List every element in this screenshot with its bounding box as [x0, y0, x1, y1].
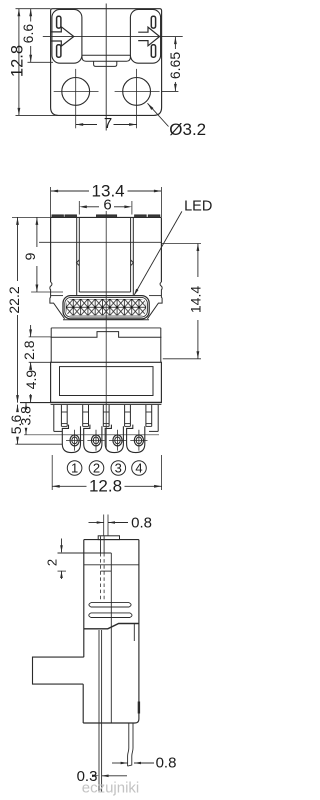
top view: vertical centerline — [105, 4, 107, 131]
dimension 0.3 bottom left leg — [92, 775, 99, 778]
svg-text:2: 2 — [45, 559, 60, 566]
side view: hidden pin dashed pair — [100, 553, 102, 600]
svg-text:22.2: 22.2 — [6, 286, 22, 313]
svg-text:2.8: 2.8 — [21, 340, 37, 360]
front view: right side squiggle break — [147, 282, 162, 319]
top view: right keystone tower — [130, 9, 160, 63]
side view: inner vertical after step — [133, 624, 135, 642]
svg-text:14.4: 14.4 — [188, 286, 204, 313]
front view: comb ladder strips — [60, 405, 62, 427]
dimension 6 slot width — [84, 206, 99, 208]
front view: left side squiggle break — [50, 282, 65, 319]
dimension 3.8 left — [25, 403, 27, 406]
front view: lower shoulder line — [51, 327, 161, 329]
top view: right mounting hole circle — [123, 78, 151, 106]
svg-text:12.8: 12.8 — [9, 45, 27, 77]
top view: left mounting hole circle — [62, 78, 90, 106]
svg-text:4.9: 4.9 — [23, 370, 39, 390]
dimension 14.4 right side — [197, 244, 199, 278]
dimension 9 slot depth — [36, 217, 38, 247]
dimension 13.4 top of front view — [51, 190, 89, 192]
dimension 5.6 left — [17, 405, 19, 410]
svg-text:3: 3 — [115, 461, 122, 476]
dimension 12.8 vertical left of top view — [16, 8, 51, 10]
dimension 6.65 vertical right of top view — [162, 90, 179, 92]
front view: slot right wall — [132, 217, 134, 295]
svg-text:6.6: 6.6 — [20, 24, 36, 44]
front view: slot bottom — [79, 291, 130, 293]
svg-text:1: 1 — [71, 461, 78, 476]
front view: base block outer — [51, 362, 162, 402]
front view: base block inner recess — [60, 367, 154, 396]
front view: comb side walls — [53, 405, 55, 432]
top view: center tab below tray — [94, 61, 117, 66]
side view: mount flange — [33, 657, 84, 684]
svg-text:4: 4 — [135, 461, 142, 476]
top view: body outline — [51, 9, 162, 116]
front view: pin header top lines — [20, 402, 161, 404]
side view: body outline — [83, 540, 139, 723]
svg-text:0.8: 0.8 — [156, 755, 177, 772]
front view: hatched LED connector window outer — [63, 296, 149, 319]
top view: left keystone tower — [52, 9, 82, 63]
front view: top lip caps — [52, 215, 63, 218]
dimension leader Ø3.2 for hole — [148, 103, 169, 126]
svg-text:9: 9 — [22, 252, 38, 260]
front view: vertical centerline — [105, 211, 107, 449]
top view: left slot lower — [57, 45, 61, 58]
side view: right bent leg — [128, 723, 129, 766]
front view: connector crosshatch fill — [66, 299, 146, 316]
circled pin number 1 — [67, 461, 82, 476]
side view: internal vertical edge — [110, 553, 112, 723]
front view: lower body sides — [50, 328, 52, 362]
dimension 4.9 left — [30, 362, 32, 368]
top view: right hole crosshairs — [115, 90, 160, 92]
svg-text:LED: LED — [184, 198, 212, 214]
dimension 0.8 bottom right leg — [112, 762, 128, 764]
dimension 12.8 bottom of front view — [51, 455, 53, 490]
top view: left hole crosshairs — [54, 90, 99, 92]
svg-text:5.6: 5.6 — [8, 415, 24, 435]
side view: step kink line — [84, 624, 139, 629]
dimension 7 below top view — [76, 124, 97, 126]
svg-text:0.8: 0.8 — [131, 515, 152, 532]
dimension 2 upper left — [58, 570, 67, 572]
svg-text:6.65: 6.65 — [167, 52, 183, 79]
top view: right slot lower — [151, 45, 155, 58]
front view: connector bottom line — [63, 319, 149, 321]
front view: outer body sides — [50, 217, 52, 282]
front view: hatched connector inner frame — [65, 297, 148, 317]
svg-text:6: 6 — [103, 196, 111, 213]
front view: screw claws with circles — [62, 425, 80, 453]
front view: extension line 3.8 bottom — [24, 434, 159, 436]
top view: left slot upper — [57, 16, 61, 28]
front view: top edge — [51, 216, 162, 218]
side view: top lip cap — [98, 536, 119, 540]
svg-text:7: 7 — [104, 115, 112, 132]
dimension 6.6 vertical left of top view — [28, 61, 54, 63]
front view: vent line with center tab — [51, 332, 162, 338]
svg-text:2: 2 — [93, 461, 100, 476]
front view: rib chevron left wall — [77, 260, 80, 266]
dimension 22.2 overall height left — [17, 217, 19, 281]
svg-text:eczujniki: eczujniki — [82, 780, 140, 797]
dimension 0.8 top — [103, 515, 105, 536]
top view: right direction arrow — [138, 27, 159, 46]
svg-text:Ø3.2: Ø3.2 — [169, 120, 206, 139]
side view: pin stub solid pair at top — [100, 536, 102, 553]
top view: optical axis centerline horizontal — [43, 36, 183, 38]
front view: slot left wall — [76, 217, 78, 295]
svg-text:12.8: 12.8 — [89, 476, 122, 495]
front view: connector shelf ledges — [51, 295, 63, 297]
front view: mold line across body — [39, 241, 161, 243]
top view: right slot upper — [151, 16, 155, 28]
side view: spring capsules — [89, 603, 131, 607]
side view: left leg — [98, 630, 100, 792]
top view: left direction arrow — [51, 27, 74, 46]
side view: internal step lines near top — [58, 552, 112, 554]
front view: rib chevron right wall — [131, 260, 134, 266]
dimension 2.8 left — [29, 336, 51, 338]
top view: central tray lines — [82, 54, 130, 56]
